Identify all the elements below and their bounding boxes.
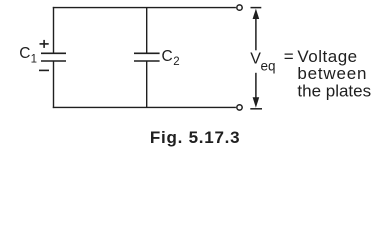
svg-text:between: between xyxy=(297,64,367,83)
svg-text:=: = xyxy=(284,47,294,66)
svg-text:Voltage: Voltage xyxy=(297,47,357,66)
svg-text:1: 1 xyxy=(31,53,37,65)
svg-text:2: 2 xyxy=(173,56,179,68)
svg-text:C: C xyxy=(162,48,173,65)
svg-text:the plates: the plates xyxy=(297,82,371,101)
svg-text:Fig. 5.17.3: Fig. 5.17.3 xyxy=(150,128,240,147)
svg-text:C: C xyxy=(19,45,30,62)
svg-text:eq: eq xyxy=(261,59,276,74)
